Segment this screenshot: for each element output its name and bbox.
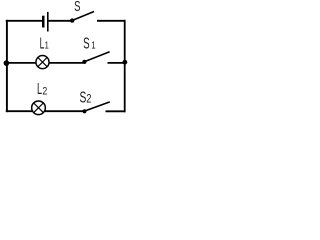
switch S2 blade (open) [85,102,110,111]
svg-text:2: 2 [42,86,47,98]
svg-text:2: 2 [86,93,91,106]
battery cell: thick short negative plate [42,16,45,28]
wire: left vertical bus [6,20,8,112]
switch S1 blade (open) [85,52,110,62]
lamp L2 cross stroke 2 [34,103,44,113]
wire: row 3, lamp L2 to switch S2 pivot [45,110,83,112]
lamp L2 cross stroke 1 [34,103,44,113]
switch S blade (open) [72,12,94,21]
wire: row 3, left bus to lamp L2 [6,110,32,112]
wire: top row, switch S contact to right bus [97,20,126,22]
svg-text:S: S [74,0,80,14]
wire: top row, battery to switch S pivot [48,20,71,22]
wire: top row, left segment to battery [6,20,42,22]
svg-text:S: S [83,34,90,52]
svg-text:L: L [40,35,45,52]
battery cell: thin long positive plate [47,12,49,32]
node: left junction dot row 2 [4,60,10,66]
wire: row 2, switch S1 contact to right bus [108,62,126,64]
lamp L2 circle [32,101,46,115]
lamp L1 cross stroke 1 [38,58,47,67]
svg-text:1: 1 [45,39,49,50]
wire: row 2, lamp L1 to switch S1 pivot [50,62,84,64]
switch S1 pivot dot [82,60,86,64]
switch S pivot dot [70,18,74,22]
wire: row 3, switch S2 contact to right bus [106,110,126,112]
lamp L1 circle [36,56,49,69]
svg-text:1: 1 [91,40,95,51]
switch S2 pivot dot [82,109,86,113]
wire: row 2, left bus to lamp L1 [6,62,36,64]
node: right junction dot row 2 [123,60,128,65]
wire: right vertical bus [124,20,126,112]
svg-text:L: L [37,81,42,98]
lamp L1 cross stroke 2 [38,58,47,67]
